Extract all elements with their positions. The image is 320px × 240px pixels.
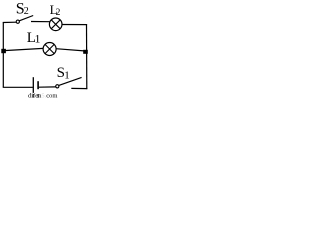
svg-text:2: 2 xyxy=(56,8,61,18)
wire bottom-right segment xyxy=(71,87,87,89)
switch S1 xyxy=(56,77,82,88)
wire bottom-left segment xyxy=(3,86,33,88)
node junction dot left xyxy=(1,49,6,53)
wire top-left segment xyxy=(3,21,16,23)
wire top-middle segment xyxy=(31,21,50,23)
svg-text:1: 1 xyxy=(35,31,41,45)
switch S2 xyxy=(16,16,33,24)
lamp L2 xyxy=(49,18,62,31)
svg-text:difen5.com: difen5.com xyxy=(28,93,57,100)
wire left vertical xyxy=(2,22,4,87)
wire bottom-middle segment xyxy=(39,86,56,88)
node junction dot right xyxy=(83,50,88,54)
svg-text:2: 2 xyxy=(24,6,29,17)
lamp L1 xyxy=(43,43,56,56)
wire right vertical xyxy=(86,24,88,89)
wire middle-left segment xyxy=(4,48,43,50)
svg-text:1: 1 xyxy=(64,70,70,82)
battery xyxy=(33,77,39,97)
wire middle-right segment xyxy=(56,49,84,51)
wire top-right segment xyxy=(62,24,87,26)
